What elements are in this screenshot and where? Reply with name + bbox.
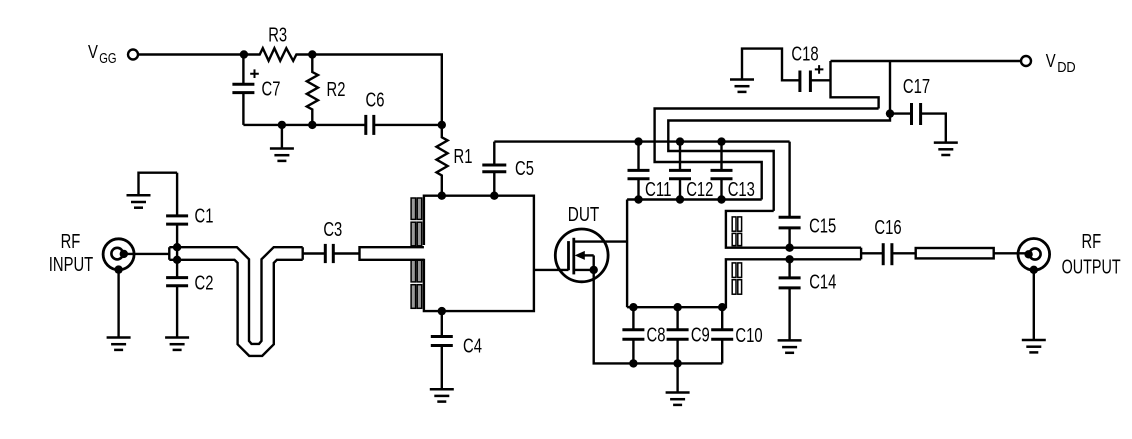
node junction stub top edge [173,243,181,251]
resistor R3 [244,48,312,61]
svg-text:R3: R3 [268,25,287,47]
output line wire to C16 [861,252,883,254]
svg-text:C2: C2 [195,273,214,295]
source wire [574,269,594,271]
gate bar [567,241,570,270]
wire drain vertical bus [626,200,628,308]
svg-text:C9: C9 [691,325,710,347]
capacitor C15 [788,142,790,218]
drain wire [574,240,627,242]
wire C18 right to VDD line [810,79,830,81]
wire stub to C3 [303,252,326,254]
wire C3 to trace [333,252,359,254]
terminal VGG [128,50,138,60]
wire C1 to ground arm [139,173,178,195]
capacitor C8 [632,307,634,330]
svg-text:C6: C6 [366,90,385,112]
node junction C14 top [785,255,793,263]
RF INPUT label [49,231,93,276]
capacitor C7 [242,55,244,85]
ground input connector [107,338,131,350]
svg-text:V: V [88,41,98,62]
VDD area: ground C18 left [730,80,754,92]
svg-text:C5: C5 [515,158,534,180]
svg-text:GG: GG [99,50,116,67]
wire L2 VDD to output stub [668,114,890,211]
ground C1 arm [127,195,151,207]
svg-text:C14: C14 [809,272,836,294]
capacitor C9 [676,307,678,330]
ground C4 [430,389,454,401]
ground C2 [165,338,189,350]
wire C18 left arm [742,49,800,81]
svg-text:C10: C10 [735,325,762,347]
node junction R3/R2 [308,50,316,58]
node junction gnd tap [278,121,286,129]
hatch bars input box edge [411,198,422,308]
node VGG label [88,41,117,67]
capacitor C4 [441,311,443,336]
capacitor C3 [324,244,327,263]
wire C9 ground stub [676,363,678,392]
body arrow [582,254,594,256]
node junction box top R1 [438,192,446,200]
wire VGG to R3 [138,53,244,55]
output channel closed end [860,248,862,260]
capacitor C12 [679,142,681,171]
svg-text:R1: R1 [454,146,473,168]
ground C9 [666,393,690,405]
wire C11-C13 bottom bus [627,198,762,200]
node junction C15 bottom [785,244,793,252]
resistor R2 [307,55,318,125]
terminal VDD [1021,56,1031,66]
capacitor C14 [788,259,790,278]
wire connector ground [117,270,119,337]
wire VDD to C17 junction [889,61,891,114]
wire output connector ground [1033,270,1035,340]
node junction R2 bottom [308,121,316,129]
svg-text:C18: C18 [791,43,818,65]
transmission line U stub [169,247,302,356]
capacitor C13 [720,142,722,171]
resistor R1 [437,125,448,196]
capacitor C1 [176,173,178,216]
svg-text:RF: RF [61,231,81,253]
svg-text:C8: C8 [647,325,666,347]
svg-text:R2: R2 [327,79,346,101]
svg-text:OUTPUT: OUTPUT [1062,257,1121,279]
wire C16 to output trace [892,252,916,254]
node junction box top C5 [490,192,498,200]
capacitor C10 [721,307,723,330]
RF OUTPUT label [1062,231,1121,279]
node dots bottom bus [634,195,642,203]
output hatch structure bottom [627,259,861,307]
node dots source top bus [629,303,637,311]
wire C1 to C2 vertical [176,224,178,278]
svg-text:V: V [1046,50,1056,71]
node dots source bottom bus [629,359,637,367]
svg-text:C16: C16 [874,217,901,239]
ground C17 [934,143,958,155]
channel bar [572,238,575,275]
ground [270,149,294,161]
svg-text:RF: RF [1081,231,1101,253]
ground C14 [778,340,802,352]
wire gnd stub [281,125,283,149]
wire box to gate [534,269,569,271]
ground output connector [1022,340,1046,352]
capacitor C16 [882,243,885,265]
input matching box [424,196,534,311]
capacitor C6 [364,115,367,135]
connector RF input [103,239,134,270]
svg-text:C12: C12 [686,179,713,201]
svg-text:DUT: DUT [568,204,600,226]
capacitor C17 [890,112,912,114]
transmission line output trace [916,248,994,258]
output hatch structure top [726,211,861,248]
wire VDD line [831,60,1022,62]
capacitor C11 [637,142,639,171]
node junction stub bottom edge [173,256,181,264]
node dots drain bus [634,137,642,145]
wire C17 to ground [921,114,946,143]
wire DUT source down [594,270,723,364]
connector RF output [1018,239,1050,271]
transistor DUT [555,229,608,282]
node junction VGG/C7/R3 [240,50,248,58]
svg-text:C17: C17 [903,76,930,98]
svg-text:C1: C1 [195,206,214,228]
svg-text:INPUT: INPUT [49,254,93,276]
wire C6 to R1 junction [374,124,442,126]
svg-text:C11: C11 [645,179,672,201]
wire R3 junction to R1 top corner [312,55,442,125]
wire trace to connector [994,252,1029,254]
node junction box bottom C4 [438,307,446,315]
wire bus C7 to C6 [243,124,365,126]
svg-text:C4: C4 [463,335,482,357]
capacitor C18 [798,71,801,93]
node junction R1 top [438,121,446,129]
transmission line input trace [360,247,424,260]
wire drain bus C5 to C15 [494,140,789,142]
svg-text:DD: DD [1057,59,1076,76]
svg-text:C15: C15 [809,215,836,237]
svg-text:C7: C7 [262,79,281,101]
wire connector to stub [124,253,170,255]
capacitor C5 [493,172,495,196]
capacitor C2 [166,276,188,279]
svg-text:C3: C3 [323,219,342,241]
wire L1 VDD to bottom bus [655,109,879,200]
svg-text:C13: C13 [728,179,755,201]
